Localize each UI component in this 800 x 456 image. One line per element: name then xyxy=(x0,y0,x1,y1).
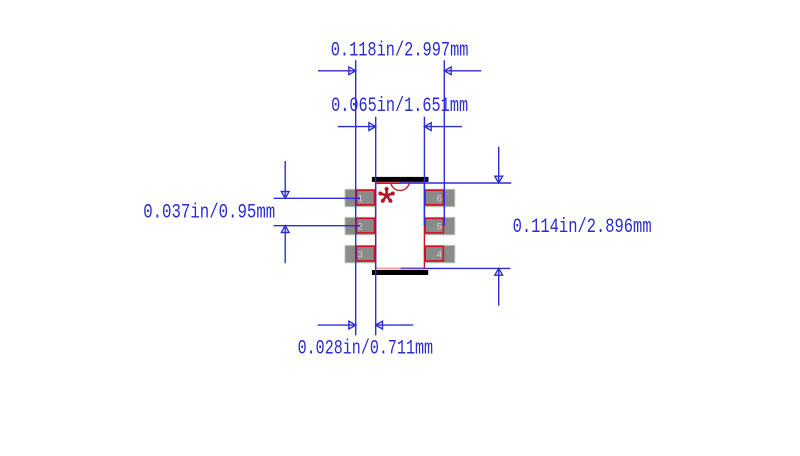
svg-text:3: 3 xyxy=(358,250,363,261)
svg-text:1: 1 xyxy=(358,194,363,205)
witness line pad row 1 xyxy=(274,197,361,199)
pin 2 lead outline xyxy=(357,218,375,233)
pin 1 lead outline xyxy=(357,190,375,205)
dimension arrows 0.028in span xyxy=(318,321,414,329)
dimension label 0.028in/0.711mm xyxy=(298,337,434,360)
pad 2 copper xyxy=(345,217,375,234)
pin 4 lead outline xyxy=(425,246,443,261)
pin number 2 xyxy=(358,222,363,233)
pin number 5 xyxy=(437,222,442,233)
body top edge (red) xyxy=(376,182,401,184)
svg-text:0.118in/2.997mm: 0.118in/2.997mm xyxy=(331,40,469,63)
pin number 4 xyxy=(437,250,442,261)
svg-text:0.065in/1.651mm: 0.065in/1.651mm xyxy=(331,95,468,118)
dimension label 0.118in/2.997mm xyxy=(331,40,469,63)
pad 1 copper xyxy=(345,189,375,206)
svg-text:6: 6 xyxy=(437,194,442,205)
dimension label 0.037in/0.95mm xyxy=(143,202,275,225)
witness line right inner xyxy=(423,117,425,226)
witness line right outer xyxy=(443,60,445,225)
silkscreen bar bottom xyxy=(372,270,428,275)
body bottom edge overlap (purple) xyxy=(401,267,425,269)
witness line pad row 2 xyxy=(274,225,361,227)
pin number 1 xyxy=(358,194,363,205)
dimension label 0.065in/1.651mm xyxy=(331,95,468,118)
dimension arrows 0.114in span xyxy=(495,147,503,306)
body bottom edge (pink) xyxy=(376,267,401,269)
pin number 6 xyxy=(437,194,442,205)
pin number 3 xyxy=(358,250,363,261)
witness line left inner xyxy=(375,117,377,336)
dimension arrows 0.118in span xyxy=(318,67,481,75)
pin-1 asterisk marker xyxy=(378,187,394,203)
package body U1 xyxy=(376,183,425,268)
svg-text:0.114in/2.896mm: 0.114in/2.896mm xyxy=(513,216,652,239)
witness line body top xyxy=(400,182,511,184)
svg-text:4: 4 xyxy=(437,250,442,261)
svg-text:0.028in/0.711mm: 0.028in/0.711mm xyxy=(298,337,434,360)
witness line left outer xyxy=(355,60,357,335)
pin 6 lead outline xyxy=(425,190,443,205)
dimension label 0.114in/2.896mm xyxy=(513,216,652,239)
silkscreen bar top xyxy=(372,177,429,182)
pin 3 lead outline xyxy=(357,246,375,261)
svg-text:0.037in/0.95mm: 0.037in/0.95mm xyxy=(143,202,275,225)
pad 6 copper xyxy=(425,189,455,206)
dimension arrows 0.037in pitch xyxy=(281,161,289,263)
pad 5 copper xyxy=(425,217,455,234)
dimension arrows 0.065in span xyxy=(338,123,462,131)
svg-text:2: 2 xyxy=(358,222,363,233)
pin-1 index arc xyxy=(391,183,409,190)
pin 5 lead outline xyxy=(425,218,443,233)
svg-text:5: 5 xyxy=(437,222,442,233)
witness line body bottom xyxy=(424,267,510,269)
pad 4 copper xyxy=(425,245,455,262)
pad 3 copper xyxy=(345,245,375,262)
